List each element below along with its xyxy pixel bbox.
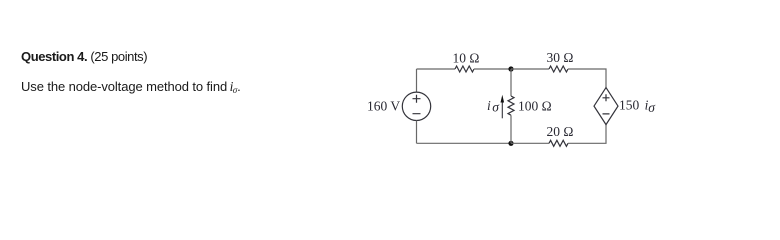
- resistor R1 10 ohm: [453, 51, 480, 73]
- wire left vertical upper (source to top): [416, 69, 418, 92]
- resistor R3 100 ohm (vertical): [508, 96, 552, 115]
- dependent source U1 150 i_sigma (diamond): [594, 88, 656, 125]
- svg-text:σ: σ: [648, 100, 656, 115]
- voltage source V1 160 V: [367, 92, 431, 120]
- wire bottom-right segment up to diamond: [568, 125, 606, 144]
- wire top-right to corner and down to diamond: [568, 69, 606, 88]
- svg-text:150 i: 150 i: [619, 98, 649, 113]
- svg-text:100 Ω: 100 Ω: [518, 98, 552, 113]
- svg-text:30 Ω: 30 Ω: [547, 50, 574, 65]
- wire top-middle segment: [474, 68, 511, 70]
- svg-text:10 Ω: 10 Ω: [453, 51, 480, 66]
- wire top-left segment: [417, 68, 456, 70]
- wire top-right segment: [511, 68, 549, 70]
- resistor R2 30 ohm: [547, 50, 574, 72]
- wire middle vertical upper: [510, 69, 512, 96]
- node B junction dot (bottom middle): [508, 141, 513, 146]
- svg-text:i: i: [487, 98, 491, 113]
- wire bottom-left segment: [417, 142, 512, 144]
- wire bottom-middle segment: [511, 142, 549, 144]
- resistor R4 20 ohm: [547, 124, 574, 146]
- svg-text:20 Ω: 20 Ω: [547, 124, 574, 139]
- svg-text:160 V: 160 V: [367, 99, 400, 114]
- wire left vertical lower (source to bottom): [416, 121, 418, 144]
- svg-text:σ: σ: [492, 100, 500, 115]
- node A junction dot (top middle): [508, 66, 513, 71]
- wire middle vertical lower: [510, 115, 512, 143]
- current arrow i_sigma: [487, 95, 504, 119]
